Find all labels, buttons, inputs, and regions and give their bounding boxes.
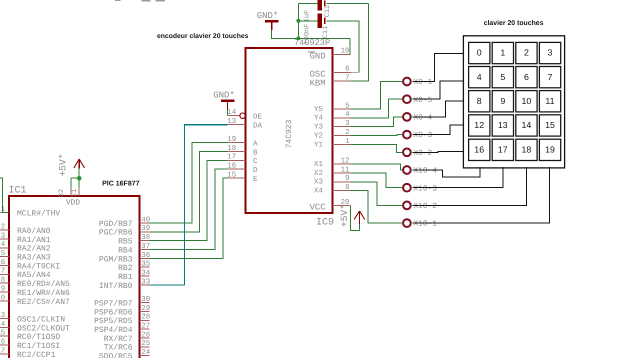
pin 28 (PSP5/RD5) of IC1	[94, 314, 150, 327]
pin 13 (OSC1/CLKIN) of IC1	[0, 312, 65, 325]
svg-text:RC2/CCP1: RC2/CCP1	[17, 351, 56, 358]
wire pad X10-1 to keypad column 4	[413, 167, 550, 223]
pin 17 (C) of IC9	[227, 154, 258, 167]
svg-text:9: 9	[1, 285, 5, 293]
svg-text:C: C	[253, 157, 258, 166]
pin 15 (RC0/T1OSO) of IC1	[0, 330, 60, 343]
svg-text:3: 3	[345, 120, 349, 128]
svg-text:MCLR#/THV: MCLR#/THV	[17, 209, 60, 218]
svg-text:IC1: IC1	[9, 186, 27, 197]
svg-text:Y2: Y2	[314, 131, 323, 140]
svg-text:34: 34	[141, 270, 150, 278]
svg-text:RB4: RB4	[118, 246, 133, 255]
svg-text:X10-4: X10-4	[414, 167, 438, 176]
junction GND net at C11	[296, 19, 300, 23]
wire pad X0-5 to keypad row 2	[413, 81, 464, 99]
pad X0-3 ring	[403, 131, 411, 139]
key 16 button	[469, 139, 490, 160]
wire GND* to GND net	[272, 30, 298, 38]
svg-text:19: 19	[545, 145, 555, 155]
svg-text:3: 3	[548, 48, 553, 58]
svg-text:9: 9	[500, 96, 505, 106]
svg-text:RB5: RB5	[118, 238, 133, 247]
svg-text:TX/RC6: TX/RC6	[104, 344, 133, 353]
ground GND* symbol top	[257, 11, 279, 30]
svg-text:5: 5	[500, 72, 505, 82]
svg-text:29: 29	[141, 305, 150, 313]
pad X10-4 ring	[403, 166, 411, 174]
pin 11 (X2) of IC9	[314, 166, 351, 178]
pin 29 (PSP6/RD6) of IC1	[94, 305, 150, 318]
svg-text:PGD/RB7: PGD/RB7	[99, 220, 133, 229]
svg-text:6: 6	[345, 66, 349, 74]
pin 17 (RC2/CCP1) of IC1	[0, 347, 56, 358]
svg-text:9: 9	[345, 175, 349, 183]
wire Y5 to pad X0-1	[351, 82, 403, 109]
svg-text:10: 10	[522, 96, 532, 106]
pin 12 (X1) of IC9	[314, 158, 351, 170]
IC IC1 PIC16F877 box	[9, 196, 140, 358]
svg-text:RB2: RB2	[118, 264, 133, 273]
svg-text:C12: C12	[324, 5, 332, 18]
key 17 button	[492, 139, 513, 160]
key 15 button	[539, 115, 560, 136]
svg-text:X0-5: X0-5	[414, 96, 433, 105]
svg-text:16: 16	[227, 163, 236, 171]
pin 4 (RA2/AN2) of IC1	[0, 241, 51, 254]
pin 10 (GND) of IC9	[310, 48, 351, 62]
svg-text:X10-1: X10-1	[414, 220, 438, 229]
pin 1 (Y1) of IC9	[314, 138, 351, 150]
svg-text:15: 15	[0, 330, 5, 338]
svg-text:8: 8	[345, 184, 349, 192]
svg-text:2: 2	[524, 48, 529, 58]
wire RB0 to DA (teal)	[149, 125, 227, 285]
svg-text:11: 11	[545, 96, 554, 106]
svg-text:4: 4	[345, 111, 350, 119]
svg-text:17: 17	[0, 347, 5, 355]
svg-text:SDO/RC5: SDO/RC5	[99, 353, 133, 358]
svg-text:Y5: Y5	[314, 106, 324, 114]
pin 5 (Y5) of IC9	[314, 102, 351, 114]
svg-text:14: 14	[0, 321, 6, 329]
svg-text:INT/RB0: INT/RB0	[99, 282, 133, 291]
svg-text:RA4/T0CKI: RA4/T0CKI	[17, 262, 60, 271]
pin 11 (VDD) top stub	[78, 188, 80, 197]
wire pad X0-2 to keypad row 5	[413, 151, 464, 154]
pin 9 (RE1/WR#/AN6) of IC1	[0, 285, 70, 298]
svg-text:6: 6	[1, 259, 5, 267]
key 19 button	[539, 139, 560, 160]
pin 38 (RB5) of IC1	[118, 234, 150, 247]
svg-text:OSC2/CLKOUT: OSC2/CLKOUT	[17, 324, 70, 333]
svg-text:25: 25	[141, 340, 150, 348]
pin 2 (Y2) of IC9	[314, 129, 351, 141]
wire pad X0-4 to keypad row 3	[413, 101, 464, 117]
wire RB7 to A	[149, 143, 227, 224]
wire VCC to +5V	[351, 205, 360, 230]
svg-text:4: 4	[477, 72, 482, 82]
key 10 button	[516, 91, 537, 112]
pin 18 (B) of IC9	[227, 145, 258, 158]
wire X4 to pad X10-1	[351, 191, 403, 223]
wire pad X0-3 to keypad row 4	[413, 125, 464, 135]
svg-text:14: 14	[522, 120, 532, 130]
svg-text:PGM/RB3: PGM/RB3	[99, 255, 133, 264]
svg-text:VDD: VDD	[66, 199, 80, 208]
svg-text:X10-2: X10-2	[414, 202, 438, 211]
svg-text:2: 2	[345, 129, 349, 137]
power +5V symbol at VCC	[354, 211, 365, 231]
key 7 button	[539, 67, 560, 88]
svg-text:16: 16	[474, 145, 484, 155]
svg-text:VCC: VCC	[310, 203, 326, 213]
svg-text:PIC 16F877: PIC 16F877	[102, 181, 139, 188]
wire Y1 to pad X0-2	[351, 144, 403, 152]
svg-text:DA: DA	[253, 123, 263, 131]
pin 30 (PSP7/RD7) of IC1	[94, 296, 150, 309]
svg-text:RX/RC7: RX/RC7	[104, 335, 133, 344]
wire pad X10-3 to keypad column 2	[413, 167, 503, 188]
svg-text:15: 15	[227, 172, 236, 180]
svg-text:GND*: GND*	[213, 90, 235, 100]
pin 6 (RA4/T0CKI) of IC1	[0, 259, 60, 272]
svg-text:0: 0	[477, 48, 482, 58]
keypad clavier 20 touches box	[463, 36, 564, 168]
svg-text:4: 4	[1, 241, 6, 249]
junction GND net lower	[296, 36, 300, 40]
wire C12 to KBM pin 7	[351, 3, 369, 81]
svg-text:28: 28	[141, 314, 150, 322]
svg-text:18: 18	[522, 145, 532, 155]
svg-text:X0-1: X0-1	[414, 78, 433, 87]
key 0 button	[469, 42, 490, 63]
svg-text:X3: X3	[314, 178, 324, 187]
svg-text:Y4: Y4	[314, 115, 324, 123]
svg-text:12: 12	[474, 120, 484, 130]
svg-text:10: 10	[341, 48, 350, 56]
svg-text:1: 1	[345, 138, 350, 146]
pin 14 (OE) of IC9 with bubble	[227, 109, 262, 122]
svg-text:7: 7	[548, 72, 553, 82]
key 13 button	[492, 115, 513, 136]
svg-text:IC9: IC9	[316, 217, 334, 228]
svg-text:32: 32	[58, 189, 66, 197]
wire RB3 to E	[149, 178, 227, 258]
svg-text:Y1: Y1	[314, 141, 324, 149]
wire RB6 to B	[149, 151, 227, 231]
pin 35 (RB2) of IC1	[118, 261, 150, 274]
wire GND net vertical	[297, 3, 299, 38]
svg-text:A: A	[253, 140, 258, 148]
cut-off text remnants at top edge	[115, 0, 121, 1]
svg-text:10: 10	[0, 294, 5, 302]
svg-text:13: 13	[498, 120, 508, 130]
pin 1 (MCLR#/THV) of IC1	[0, 206, 60, 219]
pin 39 (PGC/RB6) of IC1	[99, 225, 150, 238]
svg-text:13: 13	[227, 118, 236, 126]
pin 10 (RE2/CS#/AN7) of IC1	[0, 294, 70, 307]
svg-text:PSP7/RD7: PSP7/RD7	[94, 300, 133, 309]
pad X0-2 ring	[403, 148, 411, 156]
svg-text:39: 39	[141, 225, 150, 233]
pin 15 (E) of IC9	[227, 172, 258, 185]
svg-text:PSP6/RD6: PSP6/RD6	[94, 308, 133, 317]
wire junction to +5V arrow	[78, 169, 80, 179]
svg-text:19: 19	[227, 136, 236, 144]
pin 24 (SDO/RC5) of IC1	[99, 349, 151, 358]
svg-text:26: 26	[141, 331, 150, 339]
key 8 button	[469, 91, 490, 112]
key 5 button	[492, 67, 513, 88]
svg-text:RA1/AN1: RA1/AN1	[17, 236, 51, 245]
svg-text:RA3/AN3: RA3/AN3	[17, 254, 51, 263]
pad X0-5 ring	[403, 95, 411, 103]
pin 2 (RA0/AN0) of IC1	[0, 224, 51, 237]
wire C11 to OSC pin 6	[358, 21, 360, 73]
svg-text:X10-3: X10-3	[414, 184, 438, 193]
svg-text:RB1: RB1	[118, 273, 133, 282]
svg-text:RE2/CS#/AN7: RE2/CS#/AN7	[17, 298, 70, 307]
svg-text:OSC1/CLKIN: OSC1/CLKIN	[17, 316, 65, 325]
svg-text:40: 40	[141, 216, 150, 224]
svg-text:18: 18	[227, 145, 236, 153]
capacitor C12 top	[298, 0, 368, 11]
wire X2 to pad X10-3	[351, 173, 403, 188]
pin 16 (D) of IC9	[227, 163, 258, 176]
svg-text:clavier 20 touches: clavier 20 touches	[484, 20, 544, 27]
pin 8 (RE0/RD#/AN5) of IC1	[0, 277, 70, 290]
svg-text:7: 7	[345, 75, 349, 83]
svg-text:X1: X1	[314, 161, 324, 169]
svg-text:+5V*: +5V*	[339, 204, 350, 227]
svg-text:1: 1	[500, 48, 505, 58]
pin 5 (RA3/AN3) of IC1	[0, 250, 51, 263]
svg-text:encodeur clavier 20 touches: encodeur clavier 20 touches	[157, 33, 249, 40]
svg-text:3: 3	[1, 232, 5, 240]
svg-text:13: 13	[0, 312, 5, 320]
wire MCLR from left edge to pin 1	[0, 178, 9, 212]
wire GND net to pin 10	[298, 38, 350, 54]
pad X0-1 ring	[403, 78, 411, 86]
key 2 button	[516, 42, 537, 63]
pin 40 (PGD/RB7) of IC1	[99, 216, 150, 229]
pin 4 (Y4) of IC9	[314, 111, 351, 123]
wire RB4 to D	[149, 169, 227, 249]
svg-text:16: 16	[0, 339, 5, 347]
wire GND to OE pin	[227, 110, 229, 116]
svg-text:Y3: Y3	[314, 123, 324, 132]
svg-text:RA0/AN0: RA0/AN0	[17, 227, 51, 236]
wire Y2 to pad X0-3	[351, 134, 403, 137]
key 18 button	[516, 139, 537, 160]
key 11 button	[539, 91, 560, 112]
overline on GND pin label	[308, 51, 315, 53]
svg-text:36: 36	[141, 252, 150, 260]
svg-text:38: 38	[141, 234, 150, 242]
pad X10-2 ring	[403, 202, 411, 210]
svg-text:OE: OE	[253, 113, 263, 122]
svg-text:17: 17	[227, 154, 236, 162]
pin 25 (TX/RC6) of IC1	[104, 340, 150, 353]
pin 14 (OSC2/CLKOUT) of IC1	[0, 321, 70, 334]
svg-text:RA5/AN4: RA5/AN4	[17, 271, 51, 280]
wire Y3 to pad X0-4	[351, 117, 403, 127]
svg-text:74C923: 74C923	[285, 119, 294, 148]
svg-text:PGC/RB6: PGC/RB6	[99, 229, 133, 238]
svg-text:37: 37	[141, 243, 150, 251]
svg-text:12: 12	[341, 158, 350, 166]
svg-text:X0-3: X0-3	[414, 131, 433, 140]
capacitor C11 bottom	[298, 14, 359, 28]
svg-text:C11: C11	[322, 26, 330, 39]
pin 34 (RB1) of IC1	[118, 270, 151, 283]
svg-text:X4: X4	[314, 188, 324, 196]
wire pad X0-1 to keypad row 1	[413, 53, 464, 81]
pin 3 (RA1/AN1) of IC1	[0, 232, 51, 245]
key 6 button	[516, 67, 537, 88]
wire Y4 to pad X0-5	[351, 99, 403, 118]
pad X0-4 ring	[403, 113, 411, 121]
svg-text:E: E	[253, 176, 258, 184]
wire pad X10-4 to keypad column 1	[413, 167, 480, 177]
pin 33 (INT/RB0) of IC1	[99, 278, 150, 291]
pin 8 (X4) of IC9	[314, 184, 351, 196]
junction VDD	[77, 176, 82, 181]
svg-text:8: 8	[1, 277, 5, 285]
wire X1 to pad X10-4	[351, 164, 403, 170]
pin 20 (VCC) of IC9	[310, 199, 351, 213]
pin 37 (RB4) of IC1	[118, 243, 150, 256]
key 12 button	[469, 115, 490, 136]
pin 27 (PSP4/RD4) of IC1	[94, 323, 150, 336]
svg-text:X0-2: X0-2	[414, 149, 433, 158]
IC IC9 74C923 box	[246, 48, 333, 213]
wire pad X10-2 to keypad column 3	[413, 167, 527, 205]
pin 13 (DA) of IC9	[227, 118, 262, 131]
svg-text:RA2/AN2: RA2/AN2	[17, 245, 51, 254]
pin 7 (RA5/AN4) of IC1	[0, 268, 51, 281]
pad X10-3 ring	[403, 184, 411, 192]
wire VDD pins to +5V	[71, 177, 79, 179]
pin 7 (KBM) of IC9	[310, 75, 351, 89]
svg-text:11: 11	[341, 166, 350, 174]
wire X3 to pad X10-2	[351, 182, 403, 206]
svg-text:X0-4: X0-4	[414, 114, 433, 123]
svg-text:D: D	[253, 167, 258, 175]
svg-text:35: 35	[141, 261, 150, 269]
svg-text:GND*: GND*	[257, 11, 279, 21]
svg-text:RE0/RD#/AN5: RE0/RD#/AN5	[17, 280, 70, 289]
svg-text:11: 11	[71, 189, 79, 197]
pin 16 (RC1/T1OSI) of IC1	[0, 339, 60, 352]
svg-text:14: 14	[227, 109, 236, 117]
svg-text:7: 7	[1, 268, 5, 276]
svg-text:RC0/T1OSO: RC0/T1OSO	[17, 333, 60, 342]
svg-text:30: 30	[141, 296, 150, 304]
svg-text:33: 33	[141, 278, 150, 286]
pin 32 (VDD) top stub	[70, 188, 72, 197]
svg-text:5: 5	[345, 102, 349, 110]
svg-text:15: 15	[545, 120, 555, 130]
svg-text:PSP4/RD4: PSP4/RD4	[94, 326, 133, 335]
svg-text:B: B	[253, 149, 258, 157]
svg-text:100nF: 100nF	[304, 23, 312, 44]
svg-text:17: 17	[498, 145, 508, 155]
svg-text:PSP5/RD5: PSP5/RD5	[94, 317, 133, 326]
svg-text:24: 24	[141, 349, 150, 357]
pad X10-1 ring	[403, 219, 411, 227]
svg-text:RE1/WR#/AN6: RE1/WR#/AN6	[17, 289, 70, 298]
power +5V symbol at IC1	[78, 159, 80, 169]
key 4 button	[469, 67, 490, 88]
pin 19 (A) of IC9	[227, 136, 258, 149]
svg-text:+5V*: +5V*	[58, 153, 69, 176]
key 1 button	[492, 42, 513, 63]
ground GND* symbol above OE	[213, 90, 235, 110]
pin 36 (PGM/RB3) of IC1	[99, 252, 150, 265]
key 14 button	[516, 115, 537, 136]
pin 26 (RX/RC7) of IC1	[104, 331, 150, 344]
key 3 button	[539, 42, 560, 63]
svg-text:5: 5	[1, 250, 5, 258]
svg-text:6: 6	[524, 72, 529, 82]
svg-text:KBM: KBM	[310, 79, 326, 89]
svg-text:RC1/T1OSI: RC1/T1OSI	[17, 342, 60, 351]
pin 9 (X3) of IC9	[314, 175, 351, 187]
svg-text:GND: GND	[310, 52, 326, 62]
key 9 button	[492, 91, 513, 112]
svg-text:X2: X2	[314, 169, 323, 178]
pin 3 (Y3) of IC9	[314, 120, 351, 132]
pin 6 (OSC) of IC9	[310, 66, 351, 80]
svg-text:2: 2	[1, 224, 5, 232]
svg-text:27: 27	[141, 323, 150, 331]
wire RB5 to C	[149, 160, 227, 240]
svg-text:8: 8	[477, 96, 482, 106]
